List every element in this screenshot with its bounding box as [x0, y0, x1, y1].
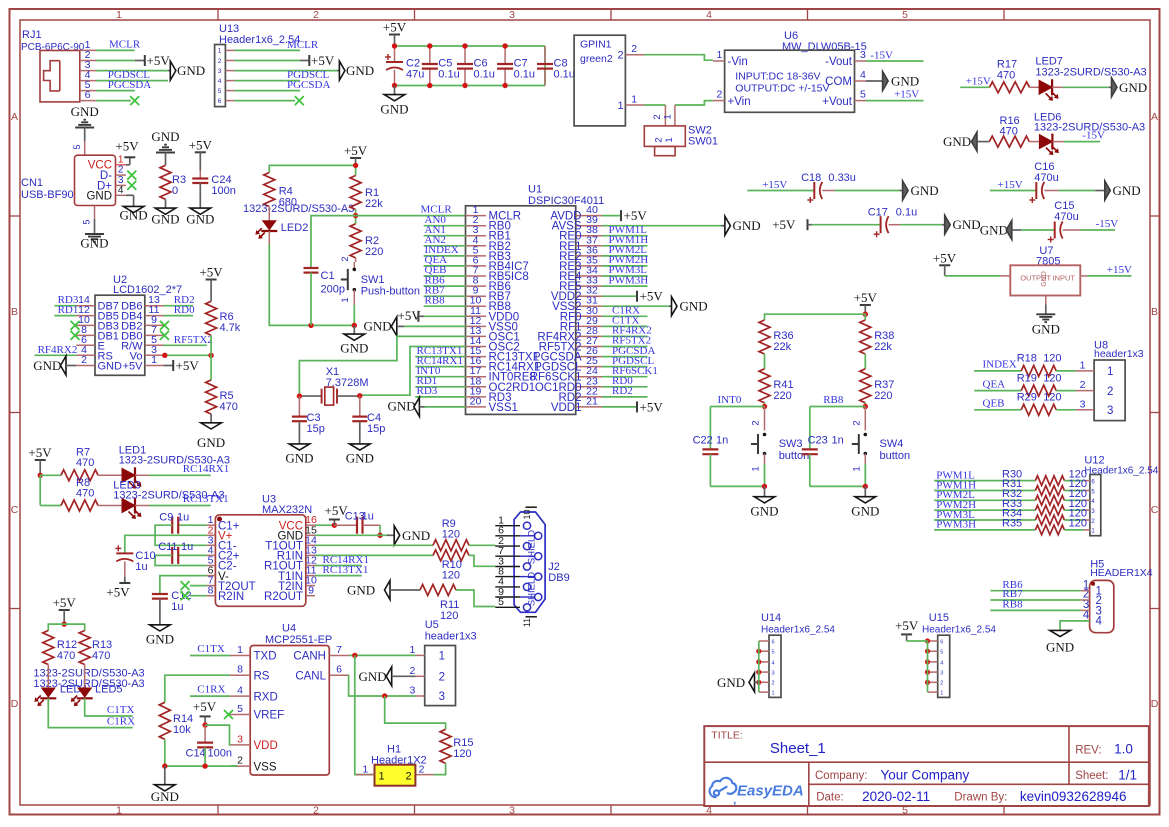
wire U1 pin9 RB7	[424, 284, 466, 296]
svg-text:8: 8	[208, 585, 214, 597]
svg-text:SW01: SW01	[688, 136, 718, 148]
wire U1 pin30 C1RX	[602, 305, 648, 317]
svg-text:GND: GND	[911, 183, 939, 198]
svg-text:U4: U4	[282, 623, 296, 635]
svg-text:2: 2	[852, 420, 863, 425]
wire U3 T1IN RC13TX1	[315, 564, 368, 576]
ground flag U6 COM	[866, 72, 919, 91]
capacitor C1 200p	[304, 216, 356, 326]
resistor R15 120	[440, 729, 473, 763]
svg-text:B: B	[11, 306, 18, 318]
wire LED6 -15V	[1064, 130, 1105, 142]
svg-text:Company:: Company:	[815, 770, 867, 782]
LED2	[255, 207, 308, 245]
svg-text:GND: GND	[388, 399, 416, 414]
capacitor C2 47u polarized	[385, 43, 424, 88]
svg-text:C1: C1	[321, 270, 335, 282]
svg-text:1: 1	[379, 771, 385, 783]
ground flag U14	[717, 673, 759, 692]
svg-text:+15V: +15V	[1107, 264, 1132, 276]
wire QEB to R29	[974, 398, 1021, 410]
svg-text:120: 120	[1043, 353, 1061, 365]
resistor R30 120	[1002, 468, 1087, 485]
power +5V RJ1 pin2	[96, 53, 170, 68]
switch SW3 button	[751, 407, 810, 487]
svg-text:LED2: LED2	[281, 222, 309, 234]
svg-text:2: 2	[419, 763, 425, 775]
svg-text:1: 1	[664, 137, 675, 142]
capacitor C16 470u	[990, 161, 1095, 203]
resistor R18 120	[1017, 353, 1076, 377]
svg-text:470u: 470u	[1054, 211, 1078, 223]
svg-text:MCLR: MCLR	[109, 39, 141, 51]
svg-text:GND: GND	[1119, 80, 1147, 95]
capacitor C12 1u	[152, 576, 207, 625]
svg-text:+Vin: +Vin	[728, 96, 751, 108]
svg-text:1: 1	[631, 94, 637, 106]
svg-text:5: 5	[772, 650, 775, 656]
resistor R4 680	[264, 173, 297, 209]
wire +5V down to R8	[39, 475, 41, 505]
capacitor C10 1u	[106, 535, 206, 599]
wire R9 to DB9 pin2	[469, 544, 495, 546]
svg-text:GND: GND	[750, 504, 778, 519]
crystal X1 7.3728M	[297, 366, 369, 405]
svg-text:C18: C18	[801, 172, 821, 184]
svg-text:3: 3	[1080, 398, 1086, 410]
svg-text:2: 2	[653, 137, 664, 142]
no-connect CN1 pin3	[116, 175, 137, 190]
svg-text:4: 4	[237, 685, 243, 697]
svg-text:1: 1	[409, 644, 415, 656]
svg-text:RS: RS	[254, 670, 270, 682]
svg-text:INPUT: INPUT	[1053, 274, 1076, 283]
svg-text:22k: 22k	[874, 341, 892, 353]
svg-text:+5V: +5V	[189, 138, 213, 153]
connector U13 Header1x6_2.54	[215, 23, 301, 107]
svg-text:+15V: +15V	[998, 179, 1023, 191]
svg-text:1: 1	[772, 691, 775, 697]
ground below C24	[186, 208, 214, 226]
svg-text:C1TX: C1TX	[197, 643, 225, 655]
svg-text:VREF: VREF	[254, 710, 285, 722]
svg-text:47u: 47u	[406, 69, 424, 81]
wire U1 pin18 RD1	[415, 375, 465, 387]
svg-text:C17: C17	[868, 207, 888, 219]
svg-text:B: B	[1151, 306, 1158, 318]
svg-text:Your Company: Your Company	[881, 767, 970, 782]
svg-text:Header1x6_2.54: Header1x6_2.54	[761, 625, 835, 636]
svg-text:D: D	[11, 698, 19, 710]
svg-text:+5V: +5V	[933, 251, 957, 266]
svg-text:6: 6	[218, 98, 222, 105]
no-connect CN1 pin2	[116, 165, 137, 180]
svg-text:0.33u: 0.33u	[828, 172, 856, 184]
svg-text:GND: GND	[71, 104, 99, 119]
svg-text:green2: green2	[580, 53, 613, 65]
svg-text:+5V: +5V	[176, 358, 200, 373]
wire U4 RXD C1RX	[190, 684, 230, 697]
svg-text:GND: GND	[151, 129, 179, 144]
svg-text:VSS: VSS	[254, 761, 277, 773]
svg-text:1: 1	[1107, 366, 1113, 378]
ground CN1 pin4	[116, 185, 148, 223]
svg-text:R29: R29	[1017, 392, 1037, 404]
svg-text:4: 4	[1096, 616, 1103, 628]
svg-text:INT0: INT0	[718, 394, 742, 406]
wire U1 pin7 QEB	[424, 264, 466, 276]
svg-text:MCP2551-EP: MCP2551-EP	[265, 634, 332, 646]
power +5V U13 pin2	[235, 53, 335, 68]
connector U14 Header1x6_2.54	[756, 612, 835, 697]
svg-text:+5V: +5V	[383, 20, 407, 35]
capacitor C3 15p	[292, 396, 325, 444]
svg-text:3: 3	[509, 805, 515, 817]
svg-text:1n: 1n	[832, 435, 844, 447]
resistor R5 470	[206, 355, 238, 414]
svg-text:120: 120	[442, 529, 460, 541]
capacitor C11 1u	[155, 541, 207, 566]
svg-text:HEADER1X4: HEADER1X4	[1090, 567, 1153, 579]
ground below capacitor bank	[380, 86, 408, 117]
LED5	[71, 665, 123, 707]
svg-text:Header1x6_2.54: Header1x6_2.54	[922, 625, 996, 636]
svg-text:CANL: CANL	[295, 670, 326, 682]
resistor R29 120	[1017, 392, 1076, 416]
resistor R14 10k	[159, 702, 193, 766]
ground GND above CN1	[71, 104, 99, 155]
svg-text:21: 21	[586, 395, 598, 407]
svg-text:RC13TX1: RC13TX1	[183, 493, 229, 505]
svg-text:2: 2	[772, 681, 775, 687]
svg-text:1: 1	[116, 805, 122, 817]
svg-text:TITLE:: TITLE:	[711, 729, 743, 741]
svg-text:0: 0	[172, 185, 178, 197]
svg-text:2: 2	[1107, 386, 1113, 398]
svg-text:4: 4	[218, 78, 222, 85]
svg-text:GND: GND	[151, 789, 179, 804]
svg-text:470: 470	[76, 457, 94, 469]
ground flag U1 pin39 AVSS	[602, 216, 761, 235]
LED7 1323-2SURD/S530-A3	[1030, 56, 1147, 101]
svg-text:SW3: SW3	[779, 438, 803, 450]
wire R10 to DB9 pin3	[469, 555, 495, 566]
no-connect U13 pin6	[235, 96, 304, 105]
wire U1 pin34 PWM3L	[602, 264, 648, 276]
ground flag U5 pin2	[359, 667, 416, 686]
wire U1 pin27 RF5TX2	[602, 335, 651, 347]
svg-text:5: 5	[237, 703, 243, 715]
svg-text:INPUT:DC 18-36V: INPUT:DC 18-36V	[735, 71, 820, 83]
svg-text:-15V: -15V	[1096, 218, 1119, 230]
svg-text:22k: 22k	[365, 198, 383, 210]
wire U1 pin4 AN2	[424, 234, 466, 246]
svg-text:+5V: +5V	[624, 208, 648, 223]
svg-text:R18: R18	[1017, 353, 1037, 365]
svg-text:RB8: RB8	[1002, 599, 1023, 611]
svg-text:4.7k: 4.7k	[220, 322, 241, 334]
capacitor C13 1u	[334, 511, 382, 539]
wire U1 pin38 PWM1L	[602, 224, 648, 236]
svg-text:470: 470	[220, 401, 238, 413]
svg-text:+5V: +5V	[854, 290, 878, 305]
svg-text:RF4RX2: RF4RX2	[38, 344, 78, 356]
svg-text:MCLR: MCLR	[287, 39, 319, 51]
svg-text:GND: GND	[151, 212, 179, 227]
svg-text:2: 2	[631, 43, 637, 55]
svg-text:GND: GND	[197, 435, 225, 450]
capacitor C15 470u	[1021, 200, 1118, 243]
svg-text:1u: 1u	[135, 561, 147, 573]
svg-text:PGCSDA: PGCSDA	[287, 79, 330, 91]
wire U1 pin22 RD2	[602, 385, 648, 397]
power +5V U1 pin11 VDD0	[398, 308, 466, 323]
svg-text:DB9: DB9	[548, 572, 569, 584]
svg-text:GND: GND	[80, 236, 108, 251]
wire U3 T1OUT to R9	[315, 544, 433, 546]
svg-text:-Vout: -Vout	[825, 56, 853, 68]
wire U1 OSC1 to crystal	[299, 336, 465, 396]
svg-text:C9: C9	[159, 512, 173, 524]
svg-text:SHIELD: SHIELD	[527, 530, 538, 564]
svg-text:GND: GND	[98, 361, 123, 373]
wire U1 pin23 RD0	[602, 375, 648, 387]
svg-text:4: 4	[860, 69, 866, 81]
svg-text:3: 3	[1107, 405, 1113, 417]
svg-text:COM: COM	[825, 76, 852, 88]
no-connect U3 pin8	[181, 591, 207, 600]
wire U13 pin5 PGCSDA	[235, 79, 331, 91]
svg-text:GND: GND	[1032, 322, 1060, 337]
wire U1 pin15 RC13TX1	[415, 345, 465, 357]
svg-text:470: 470	[76, 488, 94, 500]
capacitor C22 1n	[693, 407, 729, 487]
wire U1 pin35 PWM2H	[602, 254, 648, 266]
wire U2 pin12 RD1	[54, 304, 78, 316]
svg-text:4: 4	[940, 660, 943, 666]
svg-text:VSS1: VSS1	[489, 402, 518, 414]
wire U1 pin16 RC14RX1	[415, 355, 465, 367]
svg-text:+5V: +5V	[311, 53, 335, 68]
resistor R32 120	[1002, 488, 1087, 505]
svg-text:PWM3H: PWM3H	[936, 519, 976, 531]
connector CN1 USB-BF90	[21, 155, 116, 205]
labels 1323-2SURD/S530-A3 for LED4 LED5	[33, 668, 144, 691]
svg-text:INDEX: INDEX	[983, 359, 1017, 371]
svg-text:D: D	[1151, 698, 1159, 710]
connector GPIN1 green2	[574, 35, 644, 126]
wire U4 TXD C1TX	[190, 643, 230, 656]
svg-text:1: 1	[218, 48, 222, 55]
svg-text:2: 2	[406, 771, 412, 783]
svg-text:GND: GND	[340, 341, 368, 356]
svg-text:2: 2	[652, 114, 663, 119]
svg-text:RXD: RXD	[254, 691, 278, 703]
svg-text:PWM3H: PWM3H	[609, 274, 649, 286]
LED4	[34, 665, 87, 707]
svg-text:9: 9	[308, 585, 314, 597]
wire U1 pin5 INDEX	[424, 244, 466, 256]
wire RJ1 pin5 PGCSDA	[96, 79, 151, 91]
wire INDEX to R18	[974, 359, 1021, 371]
svg-text:2: 2	[940, 681, 943, 687]
wire +5V split to R12 R13	[48, 624, 84, 630]
wire H5 pin3 RB8	[990, 599, 1089, 611]
svg-text:120: 120	[1069, 518, 1087, 530]
svg-text:0.1u: 0.1u	[554, 69, 575, 81]
power +5V above R6	[199, 265, 223, 302]
wire LED1 RC14RX1	[149, 463, 229, 476]
power +5V U1 pin21 VDD1	[602, 399, 663, 414]
svg-text:RD1: RD1	[58, 304, 79, 316]
wire +5V rail to R4	[269, 163, 358, 176]
svg-text:-15V: -15V	[870, 50, 893, 62]
capacitor C14 100n	[186, 725, 232, 766]
svg-text:5: 5	[72, 144, 82, 149]
svg-text:,: ,	[733, 793, 736, 807]
LED6 1323-2SURD/S530-A3	[1029, 112, 1145, 156]
svg-text:0.1u: 0.1u	[438, 69, 459, 81]
svg-text:GND: GND	[980, 223, 1008, 238]
wire H5 pin1 RB6	[990, 579, 1089, 591]
ground flag C18	[899, 181, 938, 200]
ground below C3	[285, 444, 313, 466]
svg-text:GPIN1: GPIN1	[580, 39, 612, 51]
svg-text:7: 7	[336, 644, 342, 656]
svg-text:2: 2	[439, 672, 445, 684]
ground below C12	[146, 625, 174, 647]
svg-text:RD0: RD0	[174, 304, 195, 316]
power +5V U15	[895, 618, 927, 641]
svg-text:6: 6	[940, 639, 943, 645]
svg-text:GND: GND	[680, 299, 708, 314]
svg-text:Drawn By:: Drawn By:	[954, 791, 1007, 803]
svg-text:QEA: QEA	[983, 378, 1006, 390]
connector H1 Header1X2	[356, 744, 427, 786]
svg-text:GND: GND	[1041, 271, 1048, 287]
node MCLR junction	[353, 210, 358, 224]
wire U1 pin29 C1TX	[602, 315, 648, 327]
svg-text:RB8: RB8	[823, 394, 844, 406]
svg-text:U1: U1	[528, 184, 542, 196]
resistor R8 470	[40, 477, 98, 511]
svg-text:VDD1: VDD1	[551, 402, 582, 414]
svg-text:U14: U14	[761, 612, 781, 624]
svg-text:GND: GND	[285, 451, 313, 466]
svg-text:470: 470	[57, 650, 75, 662]
svg-text:5: 5	[218, 88, 222, 95]
node INT0 junction	[762, 403, 767, 409]
svg-text:1/1: 1/1	[1118, 767, 1137, 782]
svg-text:GND: GND	[120, 208, 148, 223]
ground flag U13 pin3	[235, 61, 375, 80]
svg-text:+5V: +5V	[147, 53, 171, 68]
ground GND above R3	[151, 129, 179, 165]
ground flag U1 pin12 VSS0	[364, 317, 466, 336]
svg-text:R2IN: R2IN	[218, 591, 244, 603]
power +5V to U4 VDD	[193, 699, 231, 745]
svg-text:3: 3	[218, 68, 222, 75]
svg-text:15p: 15p	[367, 423, 385, 435]
ground below SW1	[340, 323, 368, 356]
svg-text:R35: R35	[1002, 518, 1022, 530]
svg-text:CANH: CANH	[293, 651, 326, 663]
svg-text:1: 1	[618, 100, 624, 112]
svg-text:GND: GND	[733, 218, 761, 233]
svg-text:C23: C23	[808, 435, 828, 447]
wire U2 pin11 RD0	[164, 304, 196, 316]
svg-text:REV:: REV:	[1075, 745, 1101, 757]
ground flag C15	[980, 221, 1021, 240]
svg-text:20: 20	[470, 395, 482, 407]
svg-text:C: C	[11, 504, 19, 516]
resistor R38 22k	[860, 320, 895, 369]
power +5V SW3/SW4	[854, 290, 878, 317]
svg-text:GND: GND	[851, 504, 879, 519]
wire capacitor bank rails	[395, 46, 546, 86]
resistor R16 470	[989, 115, 1029, 147]
wire U2 pin4 RF4RX2	[34, 344, 77, 356]
svg-text:1: 1	[940, 691, 943, 697]
svg-text:1: 1	[1080, 359, 1086, 371]
svg-text:+15V: +15V	[762, 179, 787, 191]
svg-text:C1RX: C1RX	[197, 684, 225, 696]
wire RJ1 pin1 MCLR	[96, 39, 141, 51]
svg-text:A: A	[11, 111, 18, 123]
svg-text:+5V: +5V	[772, 217, 796, 232]
switch SW4 button	[852, 407, 911, 487]
wire U1 pin17 INT0	[415, 365, 465, 377]
svg-text:GND: GND	[891, 74, 919, 89]
svg-text:11: 11	[522, 618, 532, 627]
svg-text:+15V: +15V	[966, 76, 991, 88]
wire U2 pin14 RD3	[54, 294, 78, 306]
svg-text:GND: GND	[347, 583, 375, 598]
svg-text:header1x3: header1x3	[1094, 348, 1144, 360]
svg-text:100n: 100n	[211, 185, 235, 197]
svg-text:+5V: +5V	[53, 595, 77, 610]
resistor R11 120	[420, 585, 459, 623]
svg-text:+Vout: +Vout	[822, 96, 853, 108]
svg-text:1: 1	[751, 466, 762, 471]
svg-text:GND: GND	[146, 632, 174, 647]
svg-text:GND: GND	[402, 528, 430, 543]
no-connect U2 pin8	[71, 331, 80, 340]
label 1323-2SURD/S530-A3 LED2	[243, 203, 354, 215]
svg-text:2: 2	[237, 755, 243, 767]
svg-text:100n: 100n	[208, 747, 232, 759]
wire LED4 C1RX	[48, 698, 135, 727]
svg-text:1u: 1u	[171, 601, 183, 613]
svg-text:3: 3	[509, 9, 515, 21]
no-connect U2 pin7	[160, 331, 169, 340]
svg-text:5: 5	[940, 650, 943, 656]
resistor R3 0	[160, 165, 186, 208]
ground flag R11	[347, 581, 420, 600]
wire U1 OSC2 to crystal	[360, 347, 466, 396]
svg-text:2: 2	[340, 256, 351, 261]
wire PWM1L to R30	[934, 469, 1035, 481]
svg-text:1323-2SURD/S530-A3: 1323-2SURD/S530-A3	[243, 203, 354, 215]
svg-text:C14: C14	[186, 747, 206, 759]
power +5V CN1 pin1	[115, 139, 139, 166]
ground below SW3	[750, 486, 778, 518]
svg-text:10k: 10k	[173, 724, 191, 736]
wire U2 pin13 RD2	[164, 294, 195, 306]
svg-text:1: 1	[116, 9, 122, 21]
svg-text:RC13TX1: RC13TX1	[323, 564, 369, 576]
svg-text:SHIELD: SHIELD	[527, 572, 538, 606]
